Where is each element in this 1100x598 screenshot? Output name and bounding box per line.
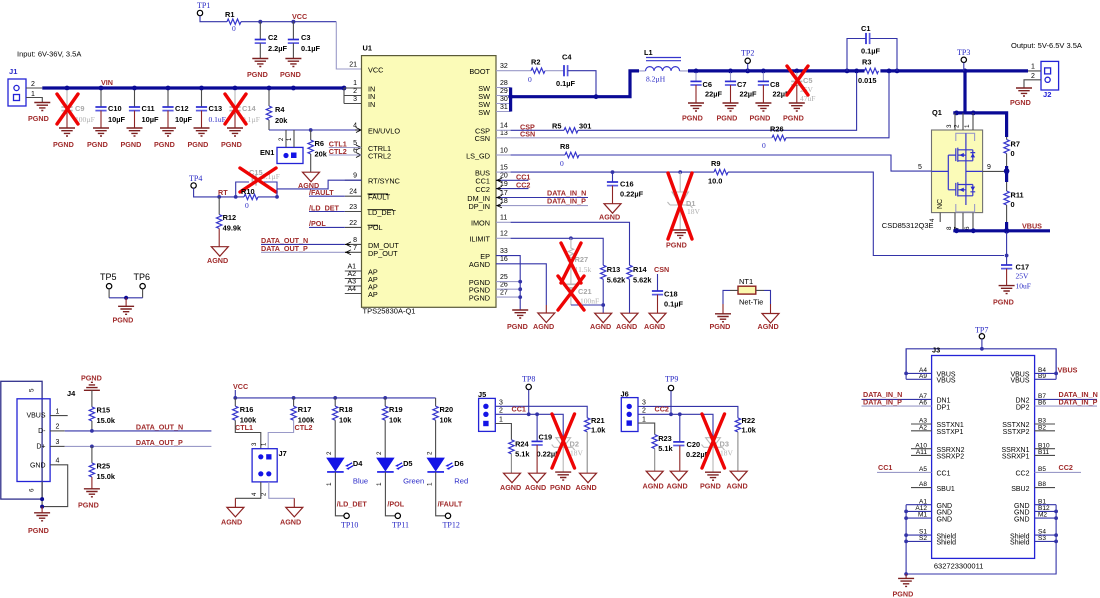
svg-text:LS_GD: LS_GD: [466, 152, 490, 161]
resistor R1: [225, 10, 241, 33]
jumper J7: [221, 442, 303, 527]
svg-text:R24: R24: [515, 440, 529, 449]
ground PGND TP5/6: [113, 298, 135, 325]
junction loop left: [234, 195, 238, 199]
node CC2 label pin19: [496, 181, 530, 190]
svg-text:J2: J2: [1043, 90, 1051, 99]
node CC2 right: [1035, 463, 1081, 472]
svg-text:5.1k: 5.1k: [515, 450, 530, 459]
capacitor C11: [129, 90, 159, 128]
svg-text:C13: C13: [209, 104, 223, 113]
svg-text:AGND: AGND: [500, 483, 521, 492]
svg-text:D4: D4: [353, 459, 363, 468]
node DATA_OUT_N label: [261, 236, 345, 245]
svg-text:C12: C12: [175, 104, 189, 113]
svg-text:TP5: TP5: [100, 272, 117, 282]
svg-text:0: 0: [1011, 200, 1015, 209]
svg-text:D2: D2: [570, 440, 579, 449]
svg-text:VBUS: VBUS: [1058, 366, 1078, 375]
svg-text:10.0: 10.0: [708, 177, 722, 186]
junction C4/SW: [594, 94, 599, 99]
svg-text:10k: 10k: [389, 416, 402, 425]
svg-text:23: 23: [349, 204, 357, 211]
svg-text:Green: Green: [403, 477, 424, 486]
svg-text:C11: C11: [142, 104, 155, 113]
svg-text:R11: R11: [1011, 191, 1024, 200]
resistor R21: [576, 416, 607, 492]
capacitor C4: [545, 53, 576, 89]
svg-text:14: 14: [500, 123, 508, 130]
svg-text:PGND: PGND: [700, 482, 721, 491]
wire VIN bus: [42, 86, 344, 89]
svg-text:DP2: DP2: [1016, 404, 1030, 411]
U1 input pin arrows: [355, 128, 361, 158]
node /POL label: [309, 219, 345, 228]
svg-text:C9: C9: [75, 104, 84, 113]
svg-text:20k: 20k: [315, 150, 328, 159]
node DATA_IN_P right: [1035, 398, 1098, 407]
svg-text:CSN: CSN: [475, 134, 490, 143]
resistor R4: [266, 90, 288, 130]
svg-text:AGND: AGND: [758, 322, 779, 331]
svg-text:D6: D6: [454, 459, 463, 468]
wire J6 pin2 CC2: [638, 414, 713, 437]
op-amp U1 TPS25830A-Q1: [362, 44, 497, 316]
svg-text:PGND: PGND: [121, 140, 142, 149]
DNP X over C9: [57, 94, 78, 124]
svg-text:33: 33: [500, 248, 508, 255]
U1 left pin stubs: [345, 180, 362, 293]
svg-text:3: 3: [56, 439, 60, 446]
svg-text:0.015: 0.015: [858, 76, 877, 85]
node DATA_OUT_P label: [261, 244, 345, 253]
capacitor C6: [682, 73, 722, 123]
svg-text:AGND: AGND: [576, 483, 597, 492]
svg-text:C5: C5: [803, 76, 812, 85]
svg-text:2: 2: [376, 451, 383, 455]
svg-text:J3: J3: [932, 346, 940, 355]
wire VOUT bus: [688, 69, 1028, 72]
svg-text:R13: R13: [607, 265, 621, 274]
wire A3 A2 stubs: [911, 424, 932, 488]
DNP X over C21: [558, 276, 584, 310]
svg-text:PGND: PGND: [53, 140, 74, 149]
svg-text:VBUS: VBUS: [937, 378, 956, 385]
svg-text:DATA_OUT_P: DATA_OUT_P: [136, 438, 183, 447]
svg-text:5: 5: [918, 164, 922, 171]
svg-text:TP2: TP2: [741, 49, 754, 58]
svg-text:R20: R20: [440, 405, 454, 414]
svg-text:25: 25: [500, 274, 508, 281]
net-tie NT1: [710, 277, 780, 331]
svg-text:C14: C14: [242, 104, 256, 113]
svg-text:AGND: AGND: [590, 322, 611, 331]
J3 right pin numbers: [1038, 367, 1050, 542]
wire GND pin4 shell: [28, 465, 68, 535]
svg-text:11: 11: [500, 215, 507, 222]
svg-text:POL: POL: [368, 223, 383, 232]
svg-text:CSN: CSN: [520, 130, 535, 139]
svg-text:R3: R3: [862, 58, 871, 67]
wire SW bus: [509, 71, 639, 112]
capacitor C14 (DNP): [229, 90, 259, 128]
svg-text:DP1: DP1: [937, 404, 951, 411]
svg-text:TP3: TP3: [957, 48, 970, 57]
svg-text:PGND: PGND: [113, 316, 134, 325]
junction EN node: [309, 128, 313, 132]
wire A4/A9 tie: [906, 349, 932, 380]
wire J5 pin3 to R21: [495, 406, 587, 418]
svg-text:13: 13: [500, 130, 508, 137]
capacitor C3: [288, 22, 321, 59]
svg-text:5.1k: 5.1k: [658, 444, 673, 453]
resistor R15: [89, 406, 116, 431]
wire EP PGND bar: [496, 256, 528, 331]
capacitor C13: [196, 90, 226, 128]
svg-text:PGND: PGND: [783, 114, 804, 123]
svg-text:0: 0: [1011, 149, 1015, 158]
svg-text:15.0k: 15.0k: [97, 472, 116, 481]
junction R12: [217, 195, 221, 199]
svg-text:CC2: CC2: [655, 404, 669, 413]
svg-text:1: 1: [376, 482, 383, 486]
connector J4 USB: [1, 381, 76, 499]
svg-text:C19: C19: [539, 433, 553, 442]
ground PGND above R15: [81, 374, 102, 407]
svg-text:18V: 18V: [687, 207, 701, 216]
svg-text:CC1: CC1: [878, 463, 892, 472]
svg-text:10k: 10k: [440, 416, 453, 425]
svg-text:TPS25830A-Q1: TPS25830A-Q1: [363, 307, 416, 316]
junction pin9 node: [1005, 166, 1008, 182]
node CSN wire R26: [496, 73, 889, 151]
svg-text:2: 2: [954, 124, 961, 128]
svg-text:AGND: AGND: [643, 482, 664, 491]
svg-text:0.1uF: 0.1uF: [209, 115, 226, 124]
capacitor C5 (DNP): [783, 73, 815, 123]
svg-text:J4: J4: [67, 389, 76, 398]
DNP X over C5: [787, 66, 808, 95]
svg-text:6: 6: [353, 148, 357, 155]
connector J6: [621, 390, 647, 432]
svg-text:/FAULT: /FAULT: [438, 500, 463, 509]
svg-text:TP9: TP9: [665, 375, 678, 384]
svg-text:BOOT: BOOT: [469, 67, 490, 76]
svg-text:TP4: TP4: [189, 174, 202, 183]
wire IMON: [496, 222, 630, 265]
transistor Q1 CSD85312Q3E: [882, 71, 1007, 231]
svg-text:Red: Red: [454, 477, 468, 486]
svg-text:2: 2: [326, 451, 333, 455]
svg-text:CC1: CC1: [512, 404, 526, 413]
wire ILIMIT: [496, 236, 603, 265]
LED D5: [376, 451, 424, 486]
node CC1 label pin20: [496, 172, 530, 181]
svg-text:1: 1: [499, 416, 503, 423]
connector J3 632723300011: [932, 346, 1035, 571]
J3 left pin numbers: [915, 367, 927, 542]
svg-text:2: 2: [353, 88, 357, 95]
capacitor C8: [750, 73, 790, 123]
svg-text:C16: C16: [620, 180, 634, 189]
U1 right pin numbers: [500, 63, 508, 297]
resistor R13: [590, 265, 626, 331]
svg-text:U1: U1: [363, 44, 372, 53]
U1 left pin numbers: [347, 62, 357, 294]
svg-text:D3: D3: [720, 440, 729, 449]
wire TP1 to R1: [200, 16, 227, 22]
svg-text:R23: R23: [658, 434, 672, 443]
svg-text:CC2: CC2: [475, 185, 490, 194]
svg-text:Output: 5V-6.5V 3.5A: Output: 5V-6.5V 3.5A: [1011, 41, 1082, 50]
test point TP3: [957, 48, 970, 71]
capacitor C15 (DNP): [249, 168, 280, 186]
resistor R10: [236, 187, 277, 210]
svg-text:EN/UVLO: EN/UVLO: [368, 127, 400, 136]
wire BUS net: [496, 170, 714, 174]
svg-text:IN: IN: [368, 100, 375, 109]
zener D3 (DNP): [700, 438, 734, 491]
svg-text:20k: 20k: [275, 116, 288, 125]
svg-text:TP6: TP6: [134, 272, 151, 282]
capacitor C19: [525, 414, 560, 492]
test point TP9: [665, 375, 678, 415]
wire D4 to TP10: [335, 472, 367, 530]
svg-text:1.0k: 1.0k: [591, 426, 606, 435]
svg-text:0: 0: [245, 201, 249, 210]
svg-text:C1: C1: [861, 24, 870, 33]
svg-text:5: 5: [353, 140, 357, 147]
svg-text:5.62k: 5.62k: [633, 276, 652, 285]
node CTL1 label pin5: [329, 139, 362, 148]
svg-text:R5: R5: [552, 122, 561, 131]
DNP X over D2: [552, 414, 575, 468]
ground AGND under R6: [298, 172, 320, 190]
test point TP7: [975, 326, 988, 349]
resistor R27 (DNP): [568, 238, 591, 284]
svg-text:Blue: Blue: [353, 477, 368, 486]
svg-text:D5: D5: [403, 459, 412, 468]
svg-text:R2: R2: [531, 58, 540, 67]
svg-text:A4: A4: [347, 286, 356, 293]
svg-text:15: 15: [500, 165, 508, 172]
svg-text:GND: GND: [1014, 516, 1030, 523]
svg-text:PGND: PGND: [750, 114, 771, 123]
svg-text:3: 3: [642, 400, 646, 407]
resistor R12: [217, 197, 242, 247]
inductor L1: [639, 48, 688, 84]
node DATA_IN_N left: [862, 390, 932, 399]
svg-text:8: 8: [946, 226, 953, 230]
ground PGND under C13: [188, 128, 210, 149]
node VCC label bottom: [233, 382, 436, 398]
svg-text:TP1: TP1: [197, 1, 210, 10]
resistor R18: [333, 398, 353, 458]
svg-text:AGND: AGND: [667, 482, 688, 491]
svg-text:0: 0: [528, 75, 532, 84]
svg-text:PGND: PGND: [1010, 98, 1031, 107]
zener D2 (DNP): [550, 438, 584, 492]
svg-text:DATA_OUT_N: DATA_OUT_N: [136, 422, 183, 431]
svg-text:1: 1: [964, 124, 971, 128]
svg-text:0.1µF: 0.1µF: [301, 44, 321, 53]
junction dots VOUT bus: [694, 69, 968, 74]
svg-text:PGND: PGND: [280, 70, 301, 79]
svg-text:10µF: 10µF: [108, 115, 125, 124]
wire VCC to pin 21: [336, 22, 361, 69]
LED D4: [326, 451, 368, 486]
svg-text:31: 31: [500, 104, 508, 111]
svg-text:C7: C7: [737, 80, 746, 89]
ground PGND at J1: [28, 103, 50, 124]
svg-text:AGND: AGND: [469, 260, 490, 269]
svg-text:26: 26: [500, 282, 508, 289]
capacitor C1: [847, 24, 897, 71]
svg-text:6: 6: [29, 488, 36, 492]
capacitor C7: [717, 73, 757, 123]
svg-text:0: 0: [762, 141, 766, 150]
wire IN pins 2,3: [344, 88, 362, 104]
DNP X over C15: [240, 168, 276, 192]
wire D5 to TP11: [385, 472, 409, 530]
wire D6 to TP12: [436, 472, 463, 530]
resistor R7: [1004, 137, 1020, 166]
svg-text:DATA_IN_P: DATA_IN_P: [863, 398, 902, 407]
wire R4 to EN/UVLO: [269, 129, 362, 131]
svg-text:18V: 18V: [570, 449, 584, 458]
resistor R25: [78, 446, 116, 509]
svg-text:2: 2: [56, 424, 60, 431]
svg-text:PGND: PGND: [469, 294, 490, 303]
wire TP4 to RT node: [194, 188, 236, 197]
ground PGND under C11: [121, 128, 143, 149]
svg-text:9: 9: [353, 173, 357, 180]
svg-text:C21: C21: [578, 287, 592, 296]
wire J5 pin2 CC1: [495, 414, 563, 437]
svg-text:AGND: AGND: [525, 483, 546, 492]
svg-text:NT1: NT1: [739, 277, 753, 286]
svg-text:J1: J1: [9, 67, 18, 76]
svg-text:C2: C2: [268, 33, 277, 42]
svg-text:R7: R7: [1011, 140, 1020, 149]
DNP X over C14: [225, 94, 246, 124]
svg-text:4: 4: [353, 123, 357, 130]
svg-text:VBUS: VBUS: [1010, 378, 1029, 385]
svg-text:GND: GND: [937, 516, 953, 523]
svg-text:100nF: 100nF: [580, 297, 599, 306]
svg-text:1: 1: [1031, 64, 1035, 71]
svg-text:R10: R10: [241, 187, 255, 196]
svg-text:Q1: Q1: [932, 108, 942, 117]
resistor R23: [638, 423, 673, 490]
svg-text:A2: A2: [347, 271, 356, 278]
svg-text:0.22µF: 0.22µF: [620, 190, 644, 199]
resistor R20: [433, 398, 453, 458]
svg-text:VIN: VIN: [101, 78, 113, 87]
svg-text:49.9k: 49.9k: [223, 224, 242, 233]
svg-text:TP10: TP10: [341, 521, 358, 530]
wire R1 to VCC: [241, 21, 336, 23]
wire BOOT: [496, 70, 531, 72]
svg-text:1: 1: [56, 409, 60, 416]
svg-text:C6: C6: [703, 80, 712, 89]
ground AGND under R12: [207, 247, 228, 265]
svg-text:R16: R16: [240, 405, 254, 414]
svg-text:Shield: Shield: [1010, 540, 1030, 547]
svg-text:16: 16: [500, 256, 508, 263]
test point TP8: [522, 375, 535, 415]
svg-text:J5: J5: [478, 390, 486, 399]
svg-text:PGND: PGND: [666, 241, 687, 250]
svg-text:1: 1: [427, 482, 434, 486]
svg-text:PGND: PGND: [710, 322, 731, 331]
svg-text:DATA_IN_P: DATA_IN_P: [1059, 398, 1098, 407]
svg-text:CC1: CC1: [937, 471, 951, 478]
svg-text:22µF: 22µF: [740, 90, 757, 99]
DNP X over R27: [561, 243, 581, 283]
svg-text:2: 2: [31, 81, 35, 88]
svg-text:301: 301: [579, 122, 591, 131]
svg-text:2: 2: [1031, 73, 1035, 80]
svg-text:R9: R9: [711, 159, 720, 168]
svg-text:7: 7: [353, 245, 357, 252]
svg-text:AGND: AGND: [616, 322, 637, 331]
svg-text:C20: C20: [687, 440, 701, 449]
zener D1 (DNP): [666, 172, 701, 249]
U1 left pin labels: [368, 66, 400, 300]
svg-text:AGND: AGND: [221, 518, 242, 527]
svg-text:A3: A3: [347, 279, 356, 286]
node DATA_IN_N right: [1035, 390, 1098, 399]
DNP X over D3: [702, 414, 725, 468]
svg-text:1: 1: [642, 416, 646, 423]
resistor R19: [383, 398, 403, 458]
svg-text:DP_IN: DP_IN: [469, 202, 491, 211]
junction SW: [508, 94, 513, 99]
svg-text:R15: R15: [97, 406, 111, 415]
wire SW pin stubs: [496, 88, 511, 112]
svg-text:AGND: AGND: [280, 518, 301, 527]
svg-text:R22: R22: [742, 416, 756, 425]
svg-text:27: 27: [500, 290, 508, 297]
test point TP6: [134, 272, 151, 298]
svg-text:32: 32: [500, 63, 508, 70]
svg-text:CC2: CC2: [1059, 463, 1073, 472]
test point TP4: [189, 174, 202, 188]
svg-text:R18: R18: [339, 405, 353, 414]
wire TP5-TP6: [109, 297, 143, 299]
svg-text:8: 8: [353, 237, 357, 244]
svg-text:R1: R1: [225, 10, 234, 19]
svg-text:SW: SW: [478, 108, 490, 117]
svg-text:Net-Tie: Net-Tie: [739, 298, 763, 307]
svg-text:2.2µF: 2.2µF: [268, 44, 288, 53]
svg-text:5.62k: 5.62k: [607, 276, 626, 285]
ground PGND J3: [893, 574, 915, 598]
svg-text:ILIMIT: ILIMIT: [469, 235, 490, 244]
svg-text:10: 10: [500, 148, 508, 155]
svg-text:VCC: VCC: [233, 382, 248, 391]
svg-text:SSRXP2: SSRXP2: [937, 454, 965, 461]
svg-text:DP_OUT: DP_OUT: [368, 249, 398, 258]
svg-text:R14: R14: [633, 265, 647, 274]
svg-text:CSD85312Q3E: CSD85312Q3E: [882, 221, 934, 230]
resistor R2: [528, 58, 545, 85]
ground PGND under C9: [53, 128, 75, 149]
pin arrows 20 19 17 18: [496, 178, 502, 208]
svg-text:C8: C8: [770, 80, 779, 89]
svg-text:10µF: 10µF: [142, 115, 159, 124]
